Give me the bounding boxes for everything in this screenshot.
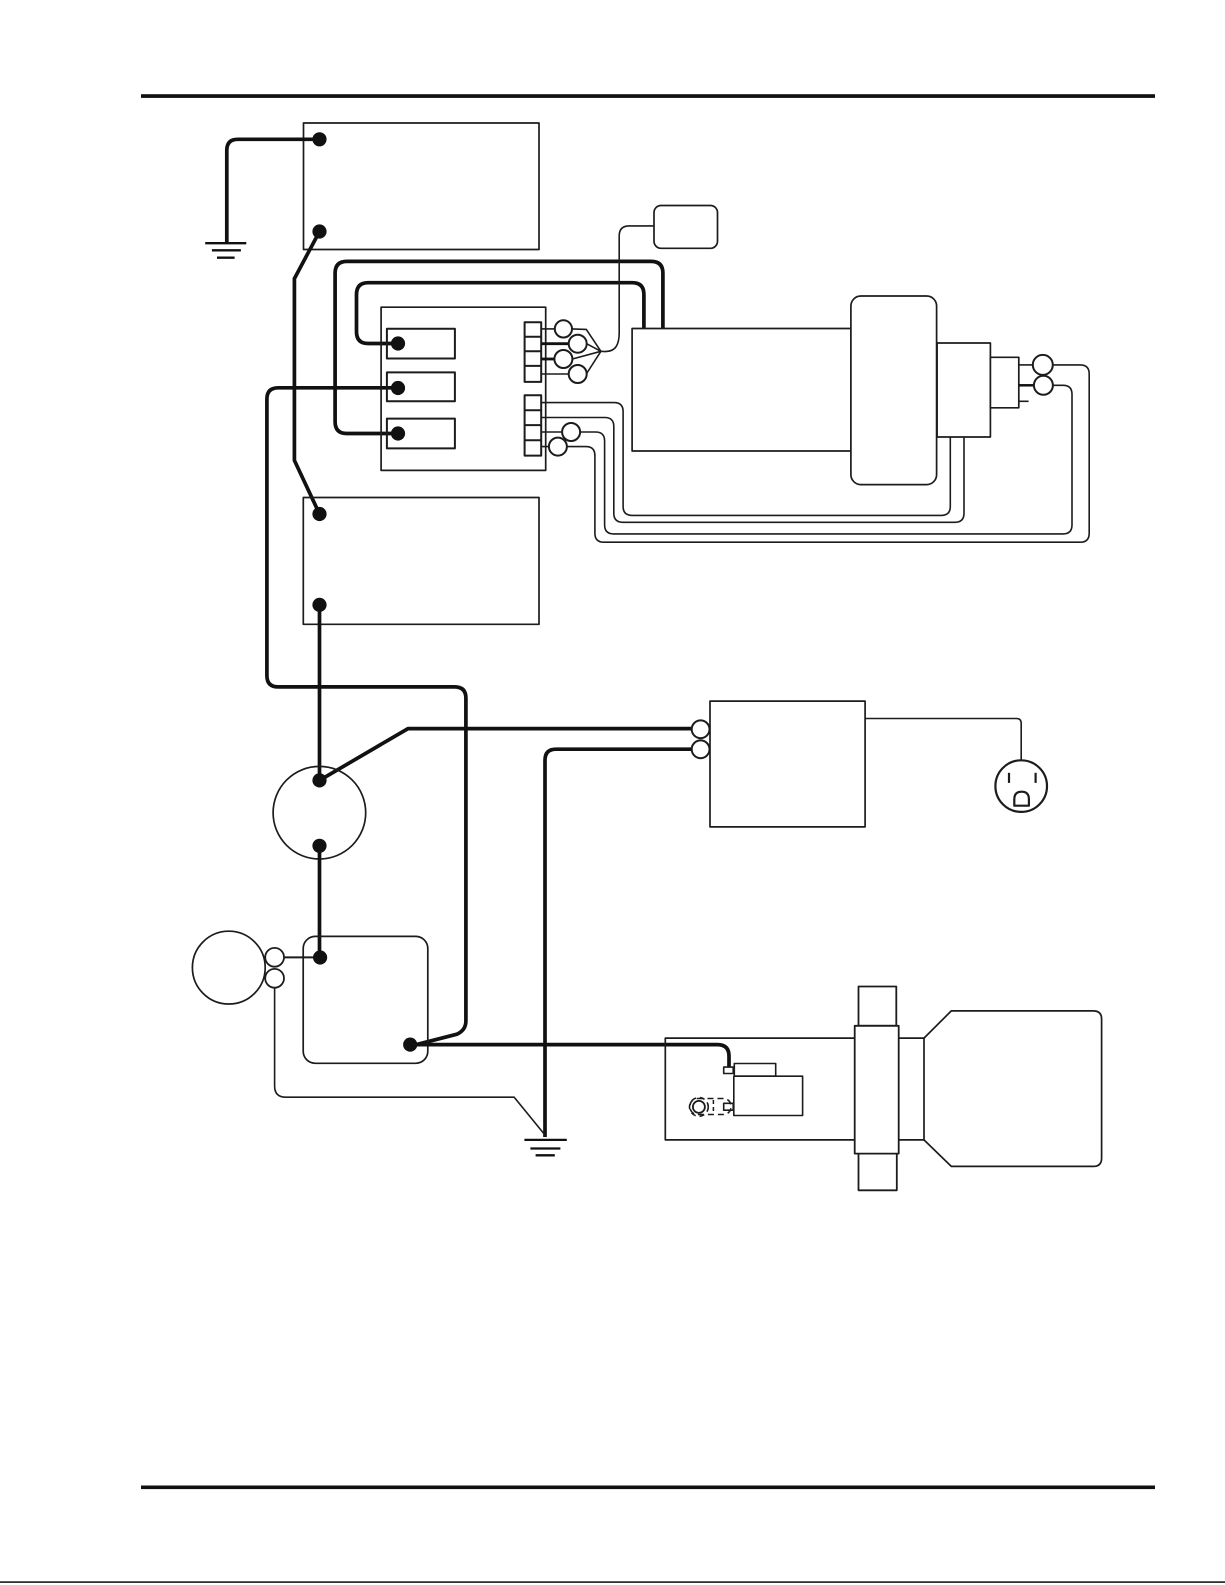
battery box B1 <box>304 123 540 250</box>
condenser circle <box>192 931 265 1004</box>
node terminal B1+ <box>312 132 326 146</box>
ring terminal C5 <box>562 423 580 441</box>
wire upper cell3 to ring C3 <box>541 358 554 361</box>
receptacle face <box>995 760 1047 812</box>
ring terminal P2 <box>692 740 710 758</box>
engine body <box>924 1011 1102 1167</box>
distributor circle <box>273 766 366 859</box>
flywheel flange <box>855 1026 899 1154</box>
ground G1 <box>205 243 246 258</box>
wire lower cell2 to motor <box>541 418 964 523</box>
stub pin line <box>1019 400 1029 402</box>
wire coil to spark plug <box>410 1045 729 1067</box>
wire box2 to distributor <box>318 605 322 781</box>
ring terminal K1 <box>265 948 284 967</box>
spark plug side square <box>724 1103 734 1110</box>
wire distributor to switch panel <box>320 729 692 781</box>
ring terminal P1 <box>692 720 710 738</box>
ground G2 <box>524 1140 566 1155</box>
node distributor top <box>312 773 326 787</box>
cord panel to receptacle <box>865 719 1021 761</box>
wire upper cell4 to ring C4 <box>541 373 569 375</box>
wire panel to ground G2 <box>545 749 692 1137</box>
spark plug dashed gasket circle <box>690 1098 709 1117</box>
ring terminal M2 <box>1034 376 1053 395</box>
starter motor end cap <box>851 296 937 485</box>
receptacle slot left <box>1008 773 1010 783</box>
wire stub to ring M1 <box>1019 364 1033 366</box>
spark plug dashed stem <box>712 1100 714 1112</box>
switch cell 3 <box>387 419 455 449</box>
wire K1 to coil <box>284 956 320 958</box>
ring terminal C3 <box>554 350 572 368</box>
starter drive housing <box>937 343 990 437</box>
wire B1 to box2 <box>294 232 319 515</box>
regulator box2 <box>303 498 539 625</box>
bottom rule <box>141 1486 1155 1490</box>
ring terminal K2 <box>265 969 284 988</box>
wire distributor to coil <box>318 846 322 958</box>
wire stub to ring M2 <box>1019 384 1034 387</box>
switch panel box3 <box>710 701 865 827</box>
page edge line <box>0 1581 1225 1583</box>
ring terminal C1 <box>555 320 572 337</box>
receptacle slot right <box>1034 773 1036 783</box>
crankshaft top block <box>859 987 897 1026</box>
wire harness to key box <box>601 226 654 352</box>
thick wire switch middle to coil <box>267 388 466 1045</box>
thick wire loop2 switch to motor <box>357 283 644 344</box>
wire lower cell4 ring to motor ring <box>541 365 1089 542</box>
ignition switch box <box>381 307 546 470</box>
spark plug body rect <box>734 1076 803 1115</box>
ring terminal M1 <box>1033 355 1053 375</box>
wire upper cell2 to ring C2 <box>541 342 569 345</box>
spark plug tip circle <box>693 1101 705 1113</box>
crankshaft bottom block <box>859 1154 897 1191</box>
wire B1 to ground <box>227 139 320 242</box>
spark plug dashed shell <box>690 1099 731 1115</box>
switch cell 1 <box>387 329 455 359</box>
starter shaft stub <box>990 357 1018 408</box>
node terminal box2 B <box>312 598 326 612</box>
connector strip lower <box>525 395 542 455</box>
node switch dot 1 <box>391 336 405 350</box>
top rule <box>141 94 1155 98</box>
connector strip upper <box>525 322 542 382</box>
thick wire loop1 switch to motor <box>335 261 663 433</box>
coil box <box>303 936 428 1063</box>
node coil minus <box>403 1038 417 1052</box>
harness kite lines <box>572 329 601 374</box>
node switch dot 2 <box>391 381 405 395</box>
receptacle ground hole <box>1014 792 1029 806</box>
wire K2 to ground G2 <box>275 988 545 1135</box>
key box <box>654 206 718 249</box>
node distributor bottom <box>312 839 326 853</box>
ring terminal C6 <box>549 438 567 456</box>
node terminal B1- <box>312 224 326 238</box>
node terminal box2 A <box>312 507 326 521</box>
wire upper cell1 to ring C1 <box>541 328 555 330</box>
node switch dot 3 <box>391 426 405 440</box>
wire lower cell1 to motor <box>541 403 950 516</box>
engine plate <box>665 1038 924 1140</box>
starter motor body <box>632 329 851 452</box>
ring terminal C2 <box>569 335 587 353</box>
spark plug cap rect <box>734 1064 775 1077</box>
wire lower cell3 ring to motor ring <box>541 385 1072 534</box>
node coil plus <box>313 950 327 964</box>
spark plug terminal <box>724 1067 734 1073</box>
switch cell 2 <box>387 372 455 401</box>
ring terminal C4 <box>569 365 587 383</box>
